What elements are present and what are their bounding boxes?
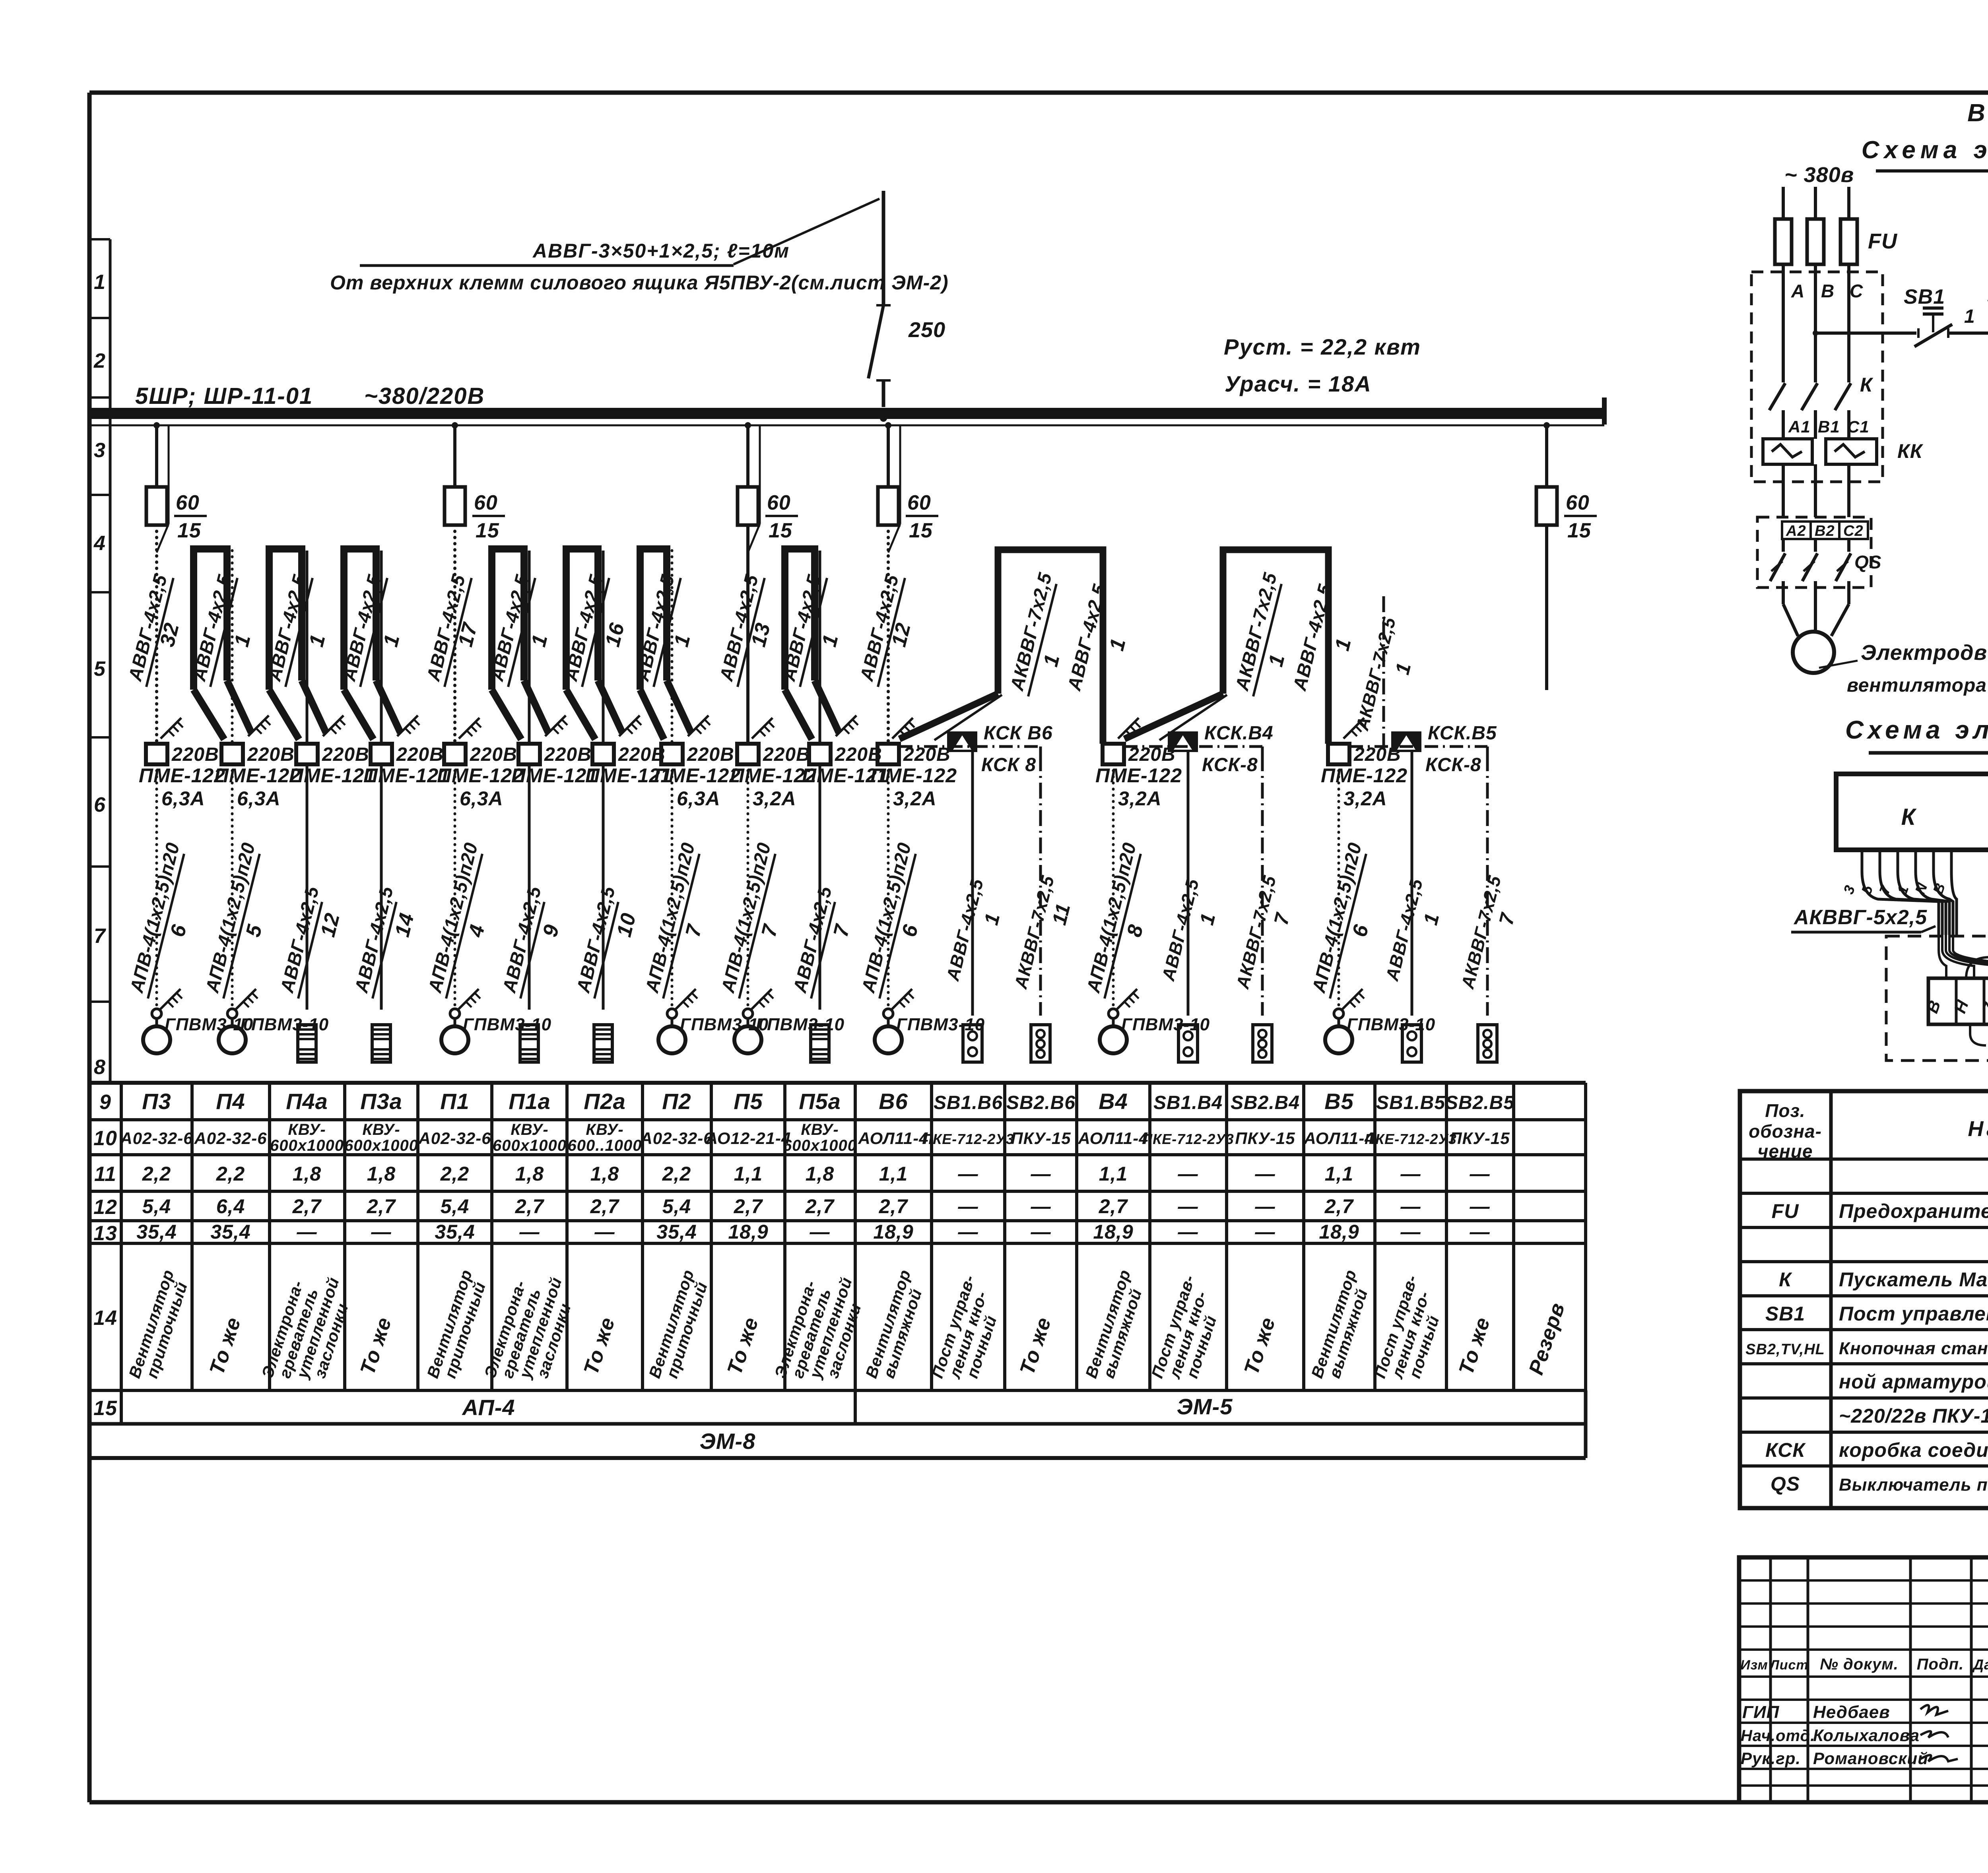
left margin zone column with numbers 1-8 xyxy=(89,239,110,1083)
label Электродвигатель xyxy=(1819,641,1988,696)
svg-text:35,4: 35,4 xyxy=(210,1221,250,1243)
svg-text:ПКУ-15: ПКУ-15 xyxy=(1235,1129,1295,1148)
svg-text:600..1000: 600..1000 xyxy=(568,1137,642,1154)
cable АВВГ-4х2,5 №9 xyxy=(498,764,564,1010)
svg-text:1,8: 1,8 xyxy=(590,1163,619,1185)
svg-text:Резерв: Резерв xyxy=(1524,1300,1569,1378)
cable АПВ-4(1х2,5)п20 №6 xyxy=(857,764,923,1010)
svg-text:6: 6 xyxy=(94,793,106,816)
svg-text:От верхних клемм силового ящик: От верхних клемм силового ящика Я5ПВУ-2(… xyxy=(330,271,949,294)
svg-text:60: 60 xyxy=(907,491,931,514)
svg-text:КВУ-: КВУ- xyxy=(586,1121,623,1138)
svg-text:В6: В6 xyxy=(879,1089,908,1114)
svg-text:5: 5 xyxy=(241,922,267,939)
svg-text:—: — xyxy=(1031,1163,1051,1185)
svg-text:чение: чение xyxy=(1758,1141,1813,1161)
svg-text:Выключатель пакетный ГПВМ-3-10: Выключатель пакетный ГПВМ-3-10,~380В,6,3… xyxy=(1839,1475,1988,1495)
svg-text:То же: То же xyxy=(1454,1315,1495,1378)
svg-text:5,4: 5,4 xyxy=(662,1195,691,1218)
svg-text:—: — xyxy=(371,1221,392,1243)
svg-text:1: 1 xyxy=(1391,660,1415,677)
svg-text:Недбаев: Недбаев xyxy=(1813,1702,1890,1722)
svg-text:15: 15 xyxy=(476,519,499,542)
svg-text:15: 15 xyxy=(769,519,792,542)
svg-text:3: 3 xyxy=(94,439,106,462)
load note Руст=22,2квт xyxy=(1224,334,1421,359)
svg-text:13: 13 xyxy=(747,620,775,649)
terminal stubs of K xyxy=(1840,850,1951,896)
svg-text:ПМЕ-122: ПМЕ-122 xyxy=(1321,764,1408,787)
svg-text:ПМЕ-122: ПМЕ-122 xyxy=(654,764,741,787)
svg-text:—: — xyxy=(1400,1163,1421,1185)
svg-text:АКВВГ-7х2,5: АКВВГ-7х2,5 xyxy=(1232,873,1280,991)
cable АПВ-4(1х2,5)п20 №4 xyxy=(424,764,489,1010)
heater П3а xyxy=(372,1025,390,1062)
title Вентилятор Поз.В4(В5,В6) xyxy=(1967,99,1988,134)
control wiring В6 to КСК to SB2.В6 xyxy=(899,746,1041,755)
svg-text:14: 14 xyxy=(93,1307,117,1330)
contactor box K xyxy=(1836,774,1988,850)
svg-text:10: 10 xyxy=(93,1127,117,1150)
svg-text:АП-4: АП-4 xyxy=(461,1395,515,1420)
cable loop АВВГ-4х2,5 №1 to П2 xyxy=(631,549,710,744)
junction box КСК.В4 xyxy=(1168,723,1274,776)
switch ГПВМ3-10 and motor В6 xyxy=(875,989,985,1053)
svg-text:1,8: 1,8 xyxy=(293,1163,322,1185)
svg-text:КСК.В4: КСК.В4 xyxy=(1204,723,1274,744)
svg-text:—: — xyxy=(1400,1195,1421,1218)
svg-text:SB1.В6: SB1.В6 xyxy=(934,1092,1003,1113)
svg-text:2,7: 2,7 xyxy=(515,1195,545,1218)
switch ГПВМ3-10 and motor В5 xyxy=(1325,989,1435,1053)
button station SB2.В4 xyxy=(1253,1025,1272,1062)
svg-text:П2: П2 xyxy=(662,1089,691,1114)
svg-text:6,3А: 6,3А xyxy=(460,787,503,810)
wires to QS xyxy=(1783,464,1849,517)
cable АВВГ-4х2,5 №12 xyxy=(276,764,344,1010)
svg-text:АОЛ11-4: АОЛ11-4 xyxy=(1303,1129,1374,1148)
svg-text:КСК 8: КСК 8 xyxy=(981,754,1036,776)
svg-text:—: — xyxy=(1470,1163,1490,1185)
svg-text:2,2: 2,2 xyxy=(216,1163,245,1185)
svg-text:АВВГ-4х2,5: АВВГ-4х2,5 xyxy=(572,884,619,995)
svg-text:7: 7 xyxy=(1495,910,1519,927)
junction box КСК В6 xyxy=(947,723,1053,776)
svg-text:4: 4 xyxy=(93,532,106,555)
button post SB1.В5 xyxy=(1402,1025,1421,1062)
svg-text:Предохранитель НПН-2, ~380в: Предохранитель НПН-2, ~380в xyxy=(1839,1200,1988,1222)
svg-text:1: 1 xyxy=(379,632,404,649)
svg-text:6: 6 xyxy=(897,922,923,939)
svg-text:ГПВМ3-10: ГПВМ3-10 xyxy=(756,1015,845,1034)
svg-text:С2: С2 xyxy=(1843,523,1864,539)
svg-text:АОЛ11-4: АОЛ11-4 xyxy=(858,1129,928,1148)
svg-text:Урасч. = 18А: Урасч. = 18А xyxy=(1225,371,1372,396)
svg-text:—: — xyxy=(1255,1163,1276,1185)
svg-text:3,2А: 3,2А xyxy=(1118,787,1162,810)
svg-text:SB1.В4: SB1.В4 xyxy=(1153,1092,1223,1113)
table row 15 panel ЭМ-5 xyxy=(1177,1394,1233,1419)
svg-text:П4а: П4а xyxy=(286,1089,328,1114)
starter ПМЕ-122 П4 xyxy=(214,744,301,810)
svg-text:ГИП: ГИП xyxy=(1742,1702,1780,1722)
svg-text:220В: 220В xyxy=(835,744,882,765)
cable loop АВВГ-4х2,5 №1 to П1а xyxy=(486,549,567,744)
svg-text:К: К xyxy=(1779,1268,1792,1291)
svg-text:7: 7 xyxy=(681,922,707,939)
cable АПВ-4(1х2,5)п20 №8 xyxy=(1082,764,1148,1010)
svg-text:18,9: 18,9 xyxy=(1319,1221,1359,1243)
svg-text:П1: П1 xyxy=(440,1089,469,1114)
svg-text:Вентилятор Поз.В4(В5,В6): Вентилятор Поз.В4(В5,В6) xyxy=(1967,99,1988,127)
switch QS contacts xyxy=(1770,539,1881,587)
svg-text:1: 1 xyxy=(670,632,695,649)
svg-text:60: 60 xyxy=(474,491,498,514)
svg-text:7: 7 xyxy=(829,922,854,939)
phase labels A B C xyxy=(1791,281,1863,301)
equipment list grid xyxy=(1740,1091,1988,1508)
svg-text:К: К xyxy=(1901,804,1917,830)
feeder В6 upper cable АВВГ-4х2,5 №12 xyxy=(856,525,915,744)
svg-text:Поз.: Поз. xyxy=(1765,1100,1805,1121)
svg-text:ПМЕ-121: ПМЕ-121 xyxy=(289,764,376,787)
starter ПМЕ-122 В5 xyxy=(1321,744,1408,810)
svg-text:600х1000: 600х1000 xyxy=(270,1137,344,1154)
svg-text:SB2.В5: SB2.В5 xyxy=(1445,1092,1514,1113)
heater П5а xyxy=(811,1025,829,1062)
wire node 1 xyxy=(1948,306,1988,333)
equipment list rows xyxy=(1745,1165,1988,1495)
svg-text:1: 1 xyxy=(1195,911,1219,927)
svg-text:6,4: 6,4 xyxy=(216,1195,245,1218)
switch ГПВМ3-10 and motor П1 xyxy=(441,989,551,1053)
svg-text:Нач.отд.: Нач.отд. xyxy=(1741,1727,1815,1745)
button post SB1.В4 xyxy=(1178,1025,1198,1062)
svg-text:—: — xyxy=(1255,1195,1276,1218)
reserve feeder fuse 60/15 xyxy=(1536,422,1597,542)
cable АКВВГ-7х2,5 №11 to SB2.В6 xyxy=(1010,755,1075,1016)
svg-text:—: — xyxy=(594,1221,615,1243)
feeder П1 upper cable АВВГ-4х2,5 №17 xyxy=(422,525,482,744)
svg-text:КВУ-: КВУ- xyxy=(801,1121,839,1138)
svg-text:—: — xyxy=(958,1221,978,1243)
svg-text:1: 1 xyxy=(1964,306,1975,327)
control rung wire xyxy=(1813,330,1916,336)
svg-text:6,3А: 6,3А xyxy=(161,787,205,810)
svg-text:~ 380в: ~ 380в xyxy=(1784,163,1854,187)
bus label ~380/220В xyxy=(364,383,485,409)
svg-text:К: К xyxy=(1860,374,1873,396)
table row 15 panel АП-4 xyxy=(461,1395,515,1420)
svg-text:КСК В6: КСК В6 xyxy=(984,723,1053,744)
svg-text:—: — xyxy=(810,1221,830,1243)
svg-text:П1а: П1а xyxy=(509,1089,551,1114)
cable note АВВГ-3х50+1х25 l=10м xyxy=(360,199,879,266)
svg-text:Пускатель Магнитный ПМЕ-122: Пускатель Магнитный ПМЕ-122 xyxy=(1839,1268,1988,1291)
reserve feeder wire xyxy=(1545,525,1548,690)
svg-text:Пост управления „Пуск-стоп“ ПК: Пост управления „Пуск-стоп“ ПКЕ-712-2У3 xyxy=(1839,1303,1988,1325)
feeder П3 fuse tap 60/15 xyxy=(146,422,207,553)
load note Урасч=18А xyxy=(1225,371,1372,396)
svg-text:—: — xyxy=(1178,1163,1198,1185)
svg-text:КСК-8: КСК-8 xyxy=(1425,754,1481,776)
cable АКВВГ-7х2,5 №7 to SB2.В4 xyxy=(1232,755,1294,1016)
labels А1 В1 С1 xyxy=(1788,417,1870,436)
schedule table grid xyxy=(89,1083,1586,1458)
table row 16 panel ЭМ-8 xyxy=(700,1429,756,1454)
svg-text:То же: То же xyxy=(579,1315,619,1378)
feeder П5 upper cable АВВГ-4х2,5 №13 xyxy=(715,525,775,744)
svg-text:2,7: 2,7 xyxy=(805,1195,835,1218)
starter ПМЕ-122 В4 xyxy=(1095,744,1182,810)
heater П2а xyxy=(594,1025,612,1062)
svg-text:А2: А2 xyxy=(1786,523,1806,539)
svg-text:—: — xyxy=(1031,1221,1051,1243)
svg-text:А02-32-6: А02-32-6 xyxy=(640,1129,713,1148)
svg-text:1,1: 1,1 xyxy=(734,1163,763,1185)
svg-text:QS: QS xyxy=(1854,552,1881,572)
svg-text:С: С xyxy=(1850,281,1863,301)
svg-text:Кнопочная станция „Пуск-стоп“: Кнопочная станция „Пуск-стоп“ с сигналь- xyxy=(1839,1339,1988,1358)
svg-text:2: 2 xyxy=(93,349,106,372)
cable bundle АКВВГ-5х2,5 xyxy=(1862,871,1957,935)
svg-text:1,8: 1,8 xyxy=(515,1163,544,1185)
svg-text:1: 1 xyxy=(980,911,1004,927)
svg-text:А02-32-6: А02-32-6 xyxy=(194,1129,267,1148)
svg-text:6: 6 xyxy=(166,922,191,939)
table row 10 equipment types xyxy=(120,1121,1510,1154)
svg-text:ной арматурой АЕ и трансформ: ной арматурой АЕ и трансформатором xyxy=(1839,1371,1988,1393)
svg-text:FU: FU xyxy=(1772,1200,1800,1222)
svg-text:2,2: 2,2 xyxy=(142,1163,171,1185)
title block signatures xyxy=(1741,1702,1958,1768)
svg-text:То же: То же xyxy=(205,1315,245,1378)
svg-text:—: — xyxy=(1255,1221,1276,1243)
stop button SB2 xyxy=(1987,285,1988,347)
svg-text:220В: 220В xyxy=(763,744,810,765)
svg-text:1: 1 xyxy=(527,632,552,649)
junction box КСК.В5 xyxy=(1391,723,1497,776)
svg-text:АВВГ-3×50+1×2,5; ℓ=10м: АВВГ-3×50+1×2,5; ℓ=10м xyxy=(532,240,790,262)
cable loop АВВГ-4х2,5 №1 to П3а xyxy=(338,549,419,744)
svg-text:6,3А: 6,3А xyxy=(237,787,281,810)
svg-text:П4: П4 xyxy=(216,1089,245,1114)
svg-text:32: 32 xyxy=(155,620,184,649)
svg-text:КСК.В5: КСК.В5 xyxy=(1428,723,1497,744)
heater П4а xyxy=(298,1025,316,1062)
feeder П5 fuse tap 60/15 xyxy=(738,422,798,553)
incoming feeder wire xyxy=(882,191,885,305)
svg-text:№ докум.: № докум. xyxy=(1820,1656,1899,1673)
cable АПВ-4(1х2,5)п20 №6 xyxy=(1308,764,1373,1010)
cable duct АКВВГ-7х2,5 / АВВГ-4х2,5 В6-В4 xyxy=(899,550,1140,744)
svg-text:—: — xyxy=(297,1221,317,1243)
svg-text:2,7: 2,7 xyxy=(367,1195,396,1218)
title block grid xyxy=(1739,1557,1988,1802)
starter ПМЕ-122 П5 xyxy=(730,744,817,810)
starter ПМЕ-121 П4а xyxy=(289,744,376,787)
svg-text:АВВГ-4х2,5: АВВГ-4х2,5 xyxy=(350,884,397,995)
cable АВВГ-4х2,5 №10 xyxy=(572,764,641,1010)
svg-text:П5: П5 xyxy=(734,1089,763,1114)
svg-text:—: — xyxy=(1470,1195,1490,1218)
svg-text:В5: В5 xyxy=(1324,1089,1354,1114)
svg-text:220В: 220В xyxy=(687,744,734,765)
svg-text:1: 1 xyxy=(1105,636,1130,653)
svg-text:ПКЕ-712-2У3: ПКЕ-712-2У3 xyxy=(1142,1131,1234,1147)
svg-text:В4: В4 xyxy=(1099,1089,1128,1114)
svg-text:ПКЕ-712-2У3: ПКЕ-712-2У3 xyxy=(1365,1131,1457,1147)
svg-text:SB2,ТV,HL: SB2,ТV,HL xyxy=(1745,1341,1825,1358)
incoming disconnect switch 250 xyxy=(868,305,945,407)
svg-text:АВВГ-4х2,5: АВВГ-4х2,5 xyxy=(1382,876,1427,983)
cable АВВГ-4х2,5 №14 xyxy=(350,764,419,1010)
svg-text:ПКУ-15: ПКУ-15 xyxy=(1011,1129,1071,1148)
svg-text:ПКУ-15: ПКУ-15 xyxy=(1450,1129,1510,1148)
svg-text:7: 7 xyxy=(1270,910,1294,927)
svg-text:обозна-: обозна- xyxy=(1749,1121,1822,1142)
svg-text:Руст. = 22,2 квт: Руст. = 22,2 квт xyxy=(1224,334,1421,359)
svg-text:То же: То же xyxy=(723,1315,763,1378)
svg-text:КСК: КСК xyxy=(1765,1439,1806,1461)
svg-text:1,1: 1,1 xyxy=(879,1163,908,1185)
svg-text:Изм: Изм xyxy=(1740,1658,1768,1673)
svg-text:SB1.В5: SB1.В5 xyxy=(1376,1092,1445,1113)
svg-text:КК: КК xyxy=(1897,440,1924,462)
svg-text:60: 60 xyxy=(176,491,200,514)
svg-text:В: В xyxy=(1922,998,1944,1016)
starter ПМЕ-121 П5а xyxy=(802,744,889,787)
svg-text:14: 14 xyxy=(390,911,419,939)
svg-text:2,7: 2,7 xyxy=(292,1195,322,1218)
svg-text:—: — xyxy=(1178,1195,1198,1218)
svg-text:11: 11 xyxy=(94,1163,116,1186)
svg-text:АКВВГ-7х2,5: АКВВГ-7х2,5 xyxy=(1457,873,1505,991)
starter ПМЕ-122 В6 xyxy=(870,744,957,810)
svg-text:15: 15 xyxy=(1567,519,1591,542)
cable loop АВВГ-4х2,5 №1 to П4а xyxy=(263,549,345,744)
svg-text:То же: То же xyxy=(1240,1315,1280,1378)
svg-text:коробка соединительная клеммна: коробка соединительная клеммная КСК-8 xyxy=(1839,1439,1988,1461)
cable АВВГ-4х2,5 №1 to SB1.В6 xyxy=(942,751,1004,1016)
cable АВВГ-4х2,5 №1 to SB1.В5 xyxy=(1382,751,1444,1016)
svg-text:АВВГ-4х2,5: АВВГ-4х2,5 xyxy=(942,876,987,983)
svg-text:В1: В1 xyxy=(1818,417,1840,436)
svg-text:ЭМ-8: ЭМ-8 xyxy=(700,1429,756,1454)
svg-text:600х1000: 600х1000 xyxy=(783,1137,857,1154)
wires K to terminal strip xyxy=(1939,935,1988,978)
svg-text:1,1: 1,1 xyxy=(1325,1163,1354,1185)
cable АКВВГ-7х2,5 №1 stub xyxy=(1352,596,1415,746)
table row 9 circuit designations xyxy=(142,1089,1514,1114)
svg-text:АКВВГ-7х2,5: АКВВГ-7х2,5 xyxy=(1006,570,1056,693)
title block column heads xyxy=(1740,1656,1988,1673)
control wiring В4 to КСК to SB2.В4 xyxy=(1124,746,1262,755)
svg-text:ПМЕ-122: ПМЕ-122 xyxy=(870,764,957,787)
svg-text:2,2: 2,2 xyxy=(440,1163,470,1185)
cable loop АВВГ-4х2,5 №16 to П2а xyxy=(560,549,641,744)
svg-text:2,7: 2,7 xyxy=(1099,1195,1128,1218)
svg-text:ЭМ-5: ЭМ-5 xyxy=(1177,1394,1233,1419)
svg-text:~220/22в ПКУ-15: ~220/22в ПКУ-15 xyxy=(1839,1405,1988,1427)
svg-text:В: В xyxy=(1821,281,1835,301)
svg-text:То же: То же xyxy=(356,1315,396,1378)
svg-text:АВВГ-4х2,5: АВВГ-4х2,5 xyxy=(276,884,323,995)
svg-text:Схема электрическая принципиал: Схема электрическая принципиальная xyxy=(1862,136,1988,164)
svg-text:5,4: 5,4 xyxy=(142,1195,171,1218)
svg-text:12: 12 xyxy=(887,620,915,649)
svg-text:1,8: 1,8 xyxy=(367,1163,396,1185)
svg-text:АВВГ-4х2,5: АВВГ-4х2,5 xyxy=(498,884,545,995)
svg-text:220В: 220В xyxy=(396,744,444,765)
svg-text:600х1000: 600х1000 xyxy=(493,1137,567,1154)
svg-text:250: 250 xyxy=(908,318,945,342)
switch ГПВМ3-10 and motor П4 xyxy=(219,989,329,1053)
svg-text:11: 11 xyxy=(1048,901,1074,927)
svg-text:АКВВГ-5х2,5: АКВВГ-5х2,5 xyxy=(1793,906,1927,929)
starter ПМЕ-122 П1 xyxy=(437,744,524,810)
svg-text:КВУ-: КВУ- xyxy=(288,1121,326,1138)
cable АПВ-4(1х2,5)п20 №5 xyxy=(201,764,267,1010)
starter ПМЕ-121 П2а xyxy=(585,744,672,787)
svg-text:1: 1 xyxy=(305,632,330,649)
terminal strip of КСК xyxy=(1922,978,1988,1024)
svg-text:—: — xyxy=(958,1163,978,1185)
svg-text:3,2А: 3,2А xyxy=(893,787,937,810)
svg-text:600х1000: 600х1000 xyxy=(344,1137,418,1154)
svg-text:—: — xyxy=(1178,1221,1198,1243)
svg-text:То же: То же xyxy=(1015,1315,1056,1378)
table row 13 xyxy=(136,1221,1490,1243)
starter ПМЕ-122 П2 xyxy=(654,744,741,810)
svg-text:1: 1 xyxy=(1330,636,1356,653)
svg-text:3,2А: 3,2А xyxy=(753,787,796,810)
feeder П3 upper cable АВВГ-4х2,5 №32 xyxy=(124,525,184,744)
svg-text:АКВВГ-7х2,5: АКВВГ-7х2,5 xyxy=(1231,570,1281,693)
cable АВВГ-4х2,5 №7 xyxy=(789,764,854,1010)
svg-text:2,7: 2,7 xyxy=(734,1195,763,1218)
button station SB2.В5 xyxy=(1478,1025,1497,1062)
svg-text:9: 9 xyxy=(99,1091,111,1114)
svg-text:15: 15 xyxy=(177,519,201,542)
label ~380в xyxy=(1784,163,1854,187)
starter ПМЕ-121 П1а xyxy=(511,744,598,787)
svg-text:А02-32-6: А02-32-6 xyxy=(120,1129,193,1148)
svg-text:16: 16 xyxy=(601,620,629,649)
bus label 5ШР ШР-11-01 xyxy=(135,383,313,409)
svg-text:АОЛ11-4: АОЛ11-4 xyxy=(1077,1129,1148,1148)
svg-text:1,8: 1,8 xyxy=(806,1163,835,1185)
svg-text:Дата: Дата xyxy=(1972,1656,1988,1673)
svg-text:1,1: 1,1 xyxy=(1099,1163,1128,1185)
svg-text:5ШР; ШР-11-01: 5ШР; ШР-11-01 xyxy=(135,383,313,409)
starter ПМЕ-122 П3 xyxy=(139,744,225,810)
svg-text:Электродвигатель: Электродвигатель xyxy=(1861,641,1988,665)
svg-text:18,9: 18,9 xyxy=(728,1221,768,1243)
svg-text:35,4: 35,4 xyxy=(136,1221,177,1243)
svg-text:220В: 220В xyxy=(247,744,295,765)
svg-text:АВВГ-4х2,5: АВВГ-4х2,5 xyxy=(789,884,836,995)
svg-text:П2а: П2а xyxy=(584,1089,626,1114)
svg-text:Схема электрическая соединений: Схема электрическая соединений xyxy=(1845,715,1988,744)
svg-text:~380/220В: ~380/220В xyxy=(364,383,485,409)
control wiring В5 to КСК to SB2.В5 xyxy=(1349,746,1487,755)
svg-text:С1: С1 xyxy=(1847,417,1870,436)
cable loop АВВГ-4х2,5 №1 to П4 xyxy=(188,549,270,744)
svg-text:ПКЕ-712-2У3: ПКЕ-712-2У3 xyxy=(922,1131,1014,1147)
svg-text:35,4: 35,4 xyxy=(656,1221,697,1243)
table row 14 consumer names (rotated) xyxy=(125,1267,1569,1381)
